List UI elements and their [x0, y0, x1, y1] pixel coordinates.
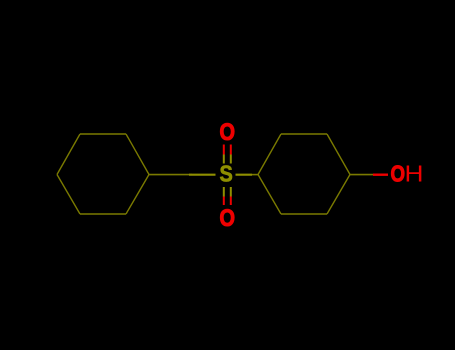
- svg-text:S: S: [220, 161, 233, 187]
- ring bond C3-C4 (upper-right edge): [327, 134, 350, 175]
- svg-text:H: H: [405, 161, 424, 187]
- ring bond C5-C6 (bottom edge): [281, 213, 327, 215]
- bond left ring to S (carbon half): [149, 174, 192, 176]
- bond S-ring (sulfur half, bright): [236, 174, 253, 176]
- S=O double bond (top), sulfur half olive: [223, 155, 225, 164]
- svg-text:O: O: [391, 161, 406, 187]
- left phenyl ring: [57, 134, 149, 214]
- ring bond C2-C3 (top edge): [281, 133, 327, 135]
- right phenol ring: [258, 134, 350, 214]
- ring bond C2-C3 (upper-left edge): [57, 134, 80, 175]
- svg-text:O: O: [220, 119, 236, 146]
- ring bond C4-C5 (lower-right edge): [327, 175, 350, 215]
- S=O double bond (top), oxygen half red: [223, 145, 225, 155]
- bond ring-O (oxygen half, red): [373, 173, 388, 175]
- S=O double bond (bottom), sulfur half olive: [223, 187, 225, 197]
- ring bond C1-C2 (lower-left edge): [57, 175, 80, 215]
- bond left ring to S (sulfur half, bright): [189, 174, 216, 176]
- ring bond C3-C4 (top edge): [80, 133, 126, 135]
- ring bond C5-C6 (lower-right edge): [126, 175, 149, 215]
- ring bond C6-C1 (bottom edge): [80, 213, 126, 215]
- S=O double bond (bottom), oxygen half red: [223, 197, 225, 206]
- bond ring-O (carbon half): [350, 174, 373, 176]
- svg-text:O: O: [220, 205, 236, 232]
- ring bond C1-C2 (upper-left edge): [258, 134, 281, 175]
- bond S-ring (carbon half): [252, 174, 258, 176]
- ring bond C4-C5 (upper-right edge): [126, 134, 149, 175]
- ring bond C6-C1 (lower-left edge): [258, 175, 281, 215]
